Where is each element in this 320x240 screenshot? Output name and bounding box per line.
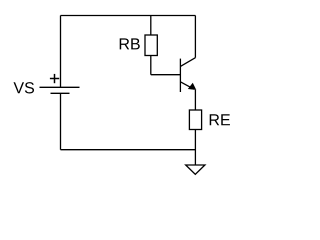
wire from top rail down to RB	[150, 16, 152, 36]
wire bottom rail	[61, 149, 196, 151]
wire from VS- down to bottom rail	[60, 93, 62, 149]
wire from RB down	[150, 56, 152, 75]
wire collector vertical to top rail	[194, 16, 196, 58]
resistor RE body	[189, 110, 201, 130]
transistor Q1 emitter lead with arrow	[180, 82, 195, 90]
label RE	[210, 114, 230, 125]
resistor RB body	[145, 35, 157, 56]
ground symbol	[186, 165, 205, 174]
label VS	[14, 82, 35, 93]
battery VS plus polarity mark	[50, 74, 59, 83]
battery VS positive plate	[40, 86, 80, 88]
wire from RE down to ground	[194, 130, 196, 166]
label RB	[120, 38, 140, 49]
wire base lead to transistor	[151, 74, 181, 76]
transistor Q1 collector lead	[180, 58, 195, 67]
wire left vertical from top rail to VS	[60, 16, 62, 88]
transistor Q1 base bar	[179, 59, 181, 92]
wire top rail from VS+ to collector	[61, 15, 196, 17]
wire emitter vertical to RE	[194, 90, 196, 110]
battery VS negative plate	[51, 92, 70, 94]
